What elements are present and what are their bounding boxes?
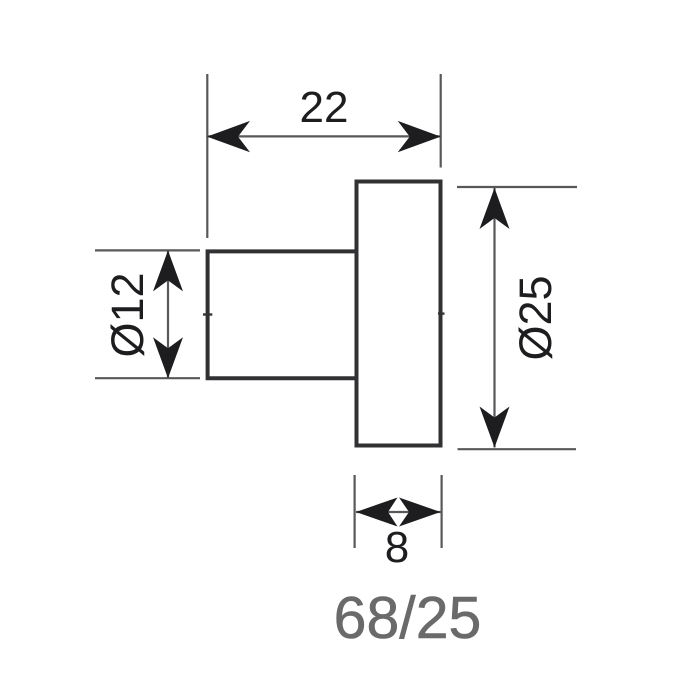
svg-text:Ø25: Ø25	[510, 275, 561, 360]
svg-text:22: 22	[300, 83, 349, 132]
svg-text:Ø12: Ø12	[102, 272, 153, 357]
svg-text:68/25: 68/25	[334, 585, 482, 651]
svg-text:8: 8	[385, 523, 409, 572]
